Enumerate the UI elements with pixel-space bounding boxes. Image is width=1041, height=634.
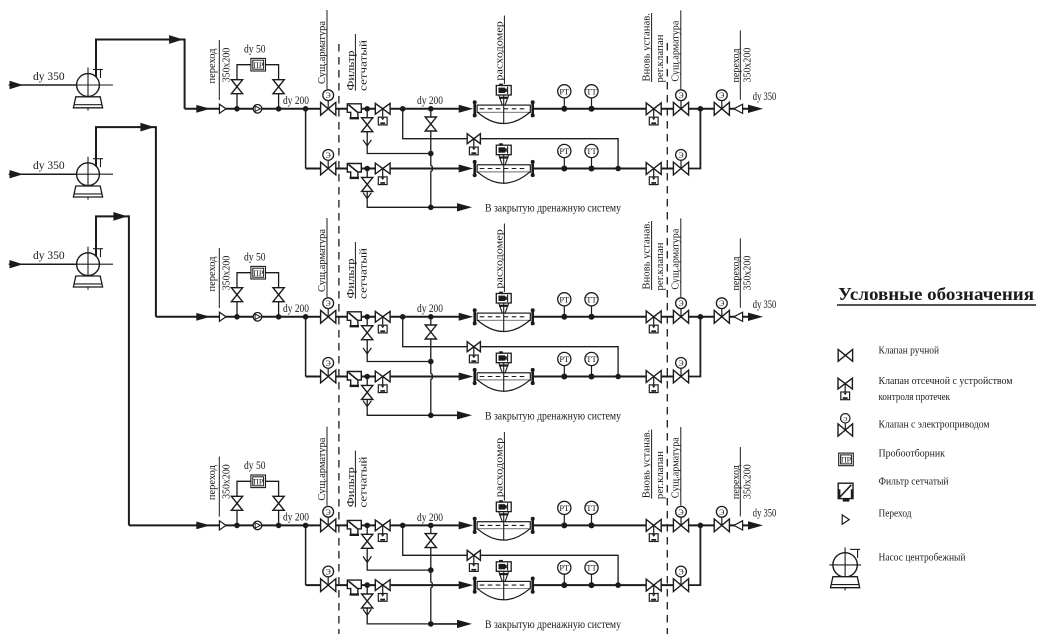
svg-text:dy 200: dy 200 — [417, 95, 443, 107]
shutoff valve w/leak control train 1 line 2 — [375, 163, 390, 184]
control valve train 2 line 1 — [646, 311, 661, 333]
node bypass left train 3 — [234, 523, 240, 529]
wire pump P1 downcomer to header 1 — [184, 39, 186, 109]
drain arrow train 1 line 2 — [363, 193, 371, 199]
label line Вновь устанав. train 2 — [651, 221, 653, 290]
svg-text:dy 350: dy 350 — [33, 71, 65, 83]
instrument TT train 1 line 2 — [585, 144, 598, 171]
svg-text:ПР: ПР — [253, 269, 264, 278]
node filter outlet train 3 line 1 — [364, 523, 370, 529]
node drain1 join train 2 — [428, 359, 434, 365]
pump P3 centrifugal — [73, 247, 113, 290]
motor valve main inlet train 1 — [321, 90, 336, 115]
wire main outlet train 1 — [533, 108, 750, 110]
svg-text:350х200: 350х200 — [220, 464, 232, 499]
drain arrow train 3 line 1 — [363, 556, 371, 562]
svg-text:Э: Э — [678, 91, 683, 100]
svg-text:В закрытую дренажную систему: В закрытую дренажную систему — [485, 411, 621, 423]
svg-text:PT: PT — [559, 354, 570, 364]
svg-text:350х200: 350х200 — [220, 47, 232, 82]
wire subline train 2 — [306, 376, 460, 378]
motor valve main inlet train 3 — [321, 506, 336, 531]
svg-text:сетчатый: сетчатый — [358, 456, 370, 507]
svg-text:Э: Э — [326, 151, 331, 160]
wire main header train 2 dy200 — [156, 316, 460, 318]
node bypass left train 2 — [234, 314, 240, 320]
legend strainer symbol — [838, 483, 853, 500]
reducer 350x200 outlet train 2 — [734, 312, 743, 321]
wire flowmeter bypass train 1 — [403, 109, 618, 169]
node filter outlet train 1 line 1 — [364, 106, 370, 112]
drain valve main train 3 — [425, 534, 436, 541]
wire pump P2 discharge riser — [96, 127, 156, 166]
node drain header join train 3 — [428, 621, 434, 627]
node bypass return train 3 — [615, 582, 621, 588]
node flowmeter bypass takeoff train 1 — [400, 106, 406, 112]
drain arrow train 1 line 1 — [363, 140, 371, 146]
svg-text:350х200: 350х200 — [741, 464, 753, 499]
reducer 350x200 outlet train 3 — [734, 521, 743, 530]
flowmeter train 3 line 2 — [473, 560, 535, 600]
motor valve main inlet train 2 — [321, 298, 336, 323]
svg-text:ПР: ПР — [253, 477, 264, 486]
motor valve subline inlet train 1 — [321, 150, 336, 175]
node drain1 join train 1 — [428, 151, 434, 157]
wire filter drain train 1 line 1 — [367, 109, 431, 154]
svg-text:Фильтр сетчатый: Фильтр сетчатый — [879, 476, 949, 487]
svg-text:TT: TT — [586, 294, 597, 304]
instrument TT train 2 line 1 — [585, 293, 598, 320]
svg-text:dy 200: dy 200 — [417, 303, 443, 315]
wire pump P2 downcomer to header 2 — [155, 126, 157, 317]
flow arrow main header train 1 — [196, 105, 210, 113]
wire subline mid train 2 — [532, 376, 681, 378]
bypass valve w/leak control train 1 — [467, 134, 480, 155]
svg-text:Вновь устанав.: Вновь устанав. — [641, 430, 652, 499]
node flowmeter bypass takeoff train 2 — [400, 314, 406, 320]
check valve train 1 — [253, 105, 262, 114]
instrument TT train 3 line 2 — [585, 561, 598, 588]
svg-text:рег.клапан: рег.клапан — [655, 34, 666, 83]
motor valve final train 3 — [714, 506, 729, 531]
svg-text:Э: Э — [678, 359, 683, 368]
svg-text:TT: TT — [586, 563, 597, 573]
valve sample left train 2 — [231, 288, 242, 295]
svg-text:dy 350: dy 350 — [753, 508, 777, 520]
wire sample bypass dy50 train 2 — [237, 273, 251, 317]
wire sample bypass right leg train 3 — [266, 481, 279, 525]
wire pump P3 suction line dy350 — [9, 263, 77, 265]
svg-text:расходомер: расходомер — [493, 21, 505, 81]
boundary dashed line existing/new equipment (left) — [338, 44, 340, 634]
svg-text:350х200: 350х200 — [220, 255, 232, 290]
svg-text:PT: PT — [559, 86, 570, 96]
control valve train 2 line 2 — [646, 371, 661, 393]
reducer 350x200 inlet train 3 — [219, 521, 226, 530]
legend motor valve symbol — [838, 414, 853, 437]
wire filter drain train 2 line 1 — [367, 317, 431, 362]
motor valve outlet train 3 line 1 — [673, 506, 688, 531]
check valve train 2 — [253, 313, 262, 322]
pump P2 centrifugal — [73, 157, 113, 200]
wire flowmeter bypass train 3 — [403, 525, 618, 585]
node flowmeter bypass takeoff train 3 — [400, 523, 406, 529]
drain valve main train 1 — [425, 117, 436, 124]
node subline drop train 3 — [303, 523, 309, 529]
drain valve main train 2 — [425, 325, 436, 332]
wire subline train 3 — [306, 584, 460, 586]
svg-text:dy 200: dy 200 — [283, 95, 309, 107]
svg-text:Клапан с электроприводом: Клапан с электроприводом — [879, 420, 990, 431]
node filter outlet train 2 line 2 — [364, 374, 370, 380]
wire drain header train 1 — [431, 206, 458, 208]
wire pump P1 suction line dy350 — [9, 84, 77, 86]
strainer filter train 2 line 1 — [347, 312, 361, 326]
flow arrow flowmeter 1 train 1 — [459, 105, 474, 113]
valve sample right train 1 — [273, 80, 284, 87]
node bypass right train 3 — [276, 523, 282, 529]
flow arrow flowmeter 1 train 2 — [459, 313, 474, 321]
svg-text:переход: переход — [206, 48, 218, 83]
svg-text:Э: Э — [843, 416, 848, 423]
pump P1 centrifugal — [73, 68, 113, 111]
svg-text:переход: переход — [206, 256, 218, 291]
motor valve outlet train 1 line 1 — [673, 90, 688, 115]
instrument PT train 1 line 2 — [558, 144, 571, 171]
svg-text:Сущ.арматура: Сущ.арматура — [316, 437, 328, 500]
bypass valve w/leak control train 3 — [467, 550, 480, 571]
valve sample left train 1 — [231, 80, 242, 87]
node filter outlet train 3 line 2 — [364, 582, 370, 588]
svg-text:Э: Э — [719, 299, 724, 308]
node drain takeoff train 1 — [428, 106, 434, 112]
svg-text:dy 200: dy 200 — [417, 512, 443, 524]
wire pump P2 suction line dy350 — [9, 173, 77, 175]
svg-text:350х200: 350х200 — [741, 255, 753, 290]
wire filter drain train 1 line 2 — [367, 169, 431, 208]
flow arrow outlet train 1 — [748, 105, 763, 113]
shutoff valve w/leak control train 2 line 2 — [375, 371, 390, 393]
flowmeter train 2 line 1 — [473, 292, 535, 332]
wire sample bypass right leg train 2 — [266, 273, 279, 317]
strainer filter train 3 line 1 — [347, 520, 361, 534]
svg-text:Э: Э — [678, 508, 683, 517]
svg-text:Э: Э — [326, 359, 331, 368]
svg-text:dy 50: dy 50 — [244, 44, 266, 56]
node subline drop train 2 — [303, 314, 309, 320]
svg-text:dy 350: dy 350 — [33, 160, 65, 172]
valve sample left train 3 — [231, 496, 242, 503]
svg-text:Сущ.арматура: Сущ.арматура — [316, 21, 328, 84]
flowmeter train 2 line 2 — [473, 351, 535, 391]
node bypass left train 1 — [234, 106, 240, 112]
node lines merge train 2 — [698, 314, 704, 320]
svg-text:Сущ.арматура: Сущ.арматура — [670, 228, 682, 289]
svg-text:dy 50: dy 50 — [244, 252, 266, 264]
svg-text:переход: переход — [730, 256, 742, 290]
svg-text:dy 200: dy 200 — [283, 303, 309, 315]
wire main header train 3 dy200 — [129, 524, 460, 526]
label line Сущ.арматура left train 1 — [326, 10, 328, 89]
drain valve filter train 3 line 2 — [362, 594, 373, 601]
shutoff valve w/leak control train 3 line 1 — [375, 520, 390, 542]
svg-text:Сущ.арматура: Сущ.арматура — [670, 437, 682, 498]
drain valve filter train 3 line 1 — [362, 534, 373, 541]
control valve train 3 line 1 — [646, 520, 661, 542]
svg-text:переход: переход — [730, 48, 742, 82]
label line Фильтр train 1 — [354, 34, 356, 91]
flow arrow pump P1 suction — [10, 81, 24, 89]
instrument PT train 1 line 1 — [558, 85, 571, 112]
instrument PT train 3 line 1 — [558, 501, 571, 528]
label line reducer outlet train 2 — [739, 238, 741, 307]
svg-text:Э: Э — [326, 508, 331, 517]
shutoff valve w/leak control train 2 line 1 — [375, 311, 390, 333]
svg-text:PT: PT — [559, 503, 570, 513]
label line reducer inlet train 2 — [218, 248, 220, 308]
flowmeter train 1 line 2 — [473, 143, 535, 183]
node drain header join train 1 — [428, 205, 434, 211]
label line Сущ.арматура left train 3 — [326, 427, 328, 506]
wire main outlet train 3 — [533, 524, 750, 526]
label line reducer outlet train 1 — [739, 30, 741, 99]
svg-text:рег.клапан: рег.клапан — [655, 450, 666, 499]
reducer 350x200 inlet train 1 — [219, 104, 226, 113]
label line Сущ.арматура left train 2 — [326, 218, 328, 297]
drain valve filter train 1 line 2 — [362, 177, 373, 184]
drain arrow train 2 line 1 — [363, 348, 371, 354]
flowmeter train 1 line 1 — [473, 84, 535, 124]
drain valve filter train 2 line 2 — [362, 385, 373, 392]
flow arrow flowmeter 1 train 3 — [459, 521, 474, 529]
drain valve filter train 2 line 1 — [362, 326, 373, 333]
svg-text:Э: Э — [326, 91, 331, 100]
svg-text:Вновь устанав.: Вновь устанав. — [641, 221, 652, 290]
legend pump symbol — [829, 547, 861, 590]
label line Вновь устанав. train 3 — [651, 430, 653, 499]
wire subline drop train 3 — [305, 525, 307, 585]
bypass valve w/leak control train 2 — [467, 342, 480, 363]
svg-text:PT: PT — [559, 294, 570, 304]
svg-text:Э: Э — [678, 299, 683, 308]
legend title underline — [837, 304, 1036, 306]
motor valve final train 2 — [714, 298, 729, 323]
label line расходомер train 1 — [503, 16, 505, 85]
svg-text:переход: переход — [206, 465, 218, 500]
flow arrow drain train 1 — [457, 203, 472, 211]
wire drain header train 2 — [431, 414, 458, 416]
node bypass right train 1 — [276, 106, 282, 112]
wire main drain riser train 2 — [431, 317, 432, 416]
flow arrow main header train 3 — [196, 522, 210, 530]
flow arrow pump P2 discharge — [140, 123, 154, 132]
wire main drain riser train 1 — [431, 109, 432, 208]
svg-text:TT: TT — [586, 503, 597, 513]
svg-text:350х200: 350х200 — [741, 47, 753, 82]
motor valve final train 1 — [714, 90, 729, 115]
svg-text:Э: Э — [719, 508, 724, 517]
node bypass return train 2 — [615, 374, 621, 380]
wire pump P3 discharge riser — [96, 216, 129, 256]
svg-text:dy 200: dy 200 — [283, 512, 309, 524]
svg-text:В закрытую дренажную систему: В закрытую дренажную систему — [485, 619, 621, 631]
instrument TT train 3 line 1 — [585, 501, 598, 528]
check valve train 3 — [253, 521, 262, 530]
flow arrow flowmeter 2 train 1 — [459, 165, 474, 173]
node bypass return train 1 — [615, 166, 621, 172]
boundary dashed line existing/new equipment (right) — [666, 43, 668, 634]
wire subline mid train 3 — [532, 584, 681, 586]
label line расходомер train 3 — [503, 432, 505, 501]
svg-text:Сущ.арматура: Сущ.арматура — [316, 229, 328, 292]
legend manual valve symbol — [838, 350, 845, 362]
strainer filter train 2 line 2 — [347, 372, 361, 386]
svg-text:TT: TT — [586, 86, 597, 96]
wire subline merge riser train 3 — [688, 525, 700, 585]
wire flowmeter bypass train 2 — [403, 317, 618, 377]
instrument TT train 2 line 2 — [585, 352, 598, 379]
wire drain header train 3 — [431, 623, 458, 625]
legend reducer symbol — [842, 515, 849, 524]
sampler PR train 2 — [251, 266, 266, 279]
shutoff valve w/leak control train 1 line 1 — [375, 103, 390, 124]
motor valve outlet train 2 line 1 — [673, 298, 688, 323]
node filter outlet train 2 line 1 — [364, 314, 370, 320]
flow arrow drain train 3 — [457, 620, 472, 628]
svg-text:рег.клапан: рег.клапан — [655, 242, 666, 291]
svg-text:Сущ.арматура: Сущ.арматура — [670, 20, 682, 81]
svg-text:расходомер: расходомер — [493, 229, 505, 289]
label line Вновь устанав. train 1 — [651, 13, 653, 82]
motor valve outlet train 2 line 2 — [673, 358, 688, 383]
label line Фильтр train 3 — [354, 451, 356, 508]
shutoff valve w/leak control train 3 line 2 — [375, 580, 390, 602]
flow arrow pump P1 discharge — [169, 35, 183, 44]
svg-text:dy 350: dy 350 — [753, 91, 777, 103]
svg-text:Э: Э — [678, 151, 683, 160]
flow arrow pump P3 suction — [10, 260, 24, 268]
wire subline merge riser train 2 — [688, 317, 700, 377]
svg-text:контроля протечек: контроля протечек — [879, 392, 951, 403]
wire filter drain train 3 line 1 — [367, 525, 431, 570]
svg-text:ПР: ПР — [253, 61, 264, 70]
sampler PR train 1 — [251, 58, 266, 71]
drain arrow train 3 line 2 — [363, 609, 371, 615]
wire main drain riser train 3 — [431, 525, 432, 624]
drain valve filter train 1 line 1 — [362, 118, 373, 125]
instrument PT train 2 line 1 — [558, 293, 571, 320]
wire subline drop train 2 — [305, 317, 307, 377]
control valve train 1 line 2 — [646, 163, 661, 185]
label line Сущ.арматура right train 2 — [680, 218, 682, 297]
wire subline drop train 1 — [305, 109, 307, 169]
node lines merge train 3 — [698, 523, 704, 529]
svg-text:Пробоотборник: Пробоотборник — [879, 449, 946, 460]
svg-text:PT: PT — [559, 563, 570, 573]
instrument PT train 3 line 2 — [558, 561, 571, 588]
svg-text:dy 350: dy 350 — [753, 299, 777, 311]
legend shutoff valve w/leak control symbol — [838, 378, 852, 400]
svg-text:Переход: Переход — [879, 508, 913, 519]
label line Сущ.арматура right train 3 — [680, 427, 682, 506]
control valve train 1 line 1 — [646, 103, 661, 125]
legend sampler symbol — [839, 453, 854, 466]
wire sample bypass right leg train 1 — [266, 65, 279, 109]
svg-text:dy 50: dy 50 — [244, 460, 266, 472]
flow arrow drain train 2 — [457, 411, 472, 419]
flow arrow pump P3 discharge — [113, 212, 127, 221]
flow arrow pump P2 suction — [10, 170, 24, 178]
svg-text:сетчатый: сетчатый — [358, 248, 370, 299]
flow arrow flowmeter 2 train 3 — [459, 581, 474, 589]
svg-text:Э: Э — [326, 299, 331, 308]
svg-text:переход: переход — [730, 465, 742, 499]
svg-text:Э: Э — [326, 568, 331, 577]
flowmeter train 3 line 1 — [473, 500, 535, 540]
instrument TT train 1 line 1 — [585, 85, 598, 112]
label line reducer outlet train 3 — [739, 447, 741, 516]
flow arrow outlet train 2 — [748, 313, 763, 321]
svg-text:TT: TT — [586, 146, 597, 156]
sampler PR train 3 — [251, 475, 266, 488]
svg-text:Клапан ручной: Клапан ручной — [879, 345, 940, 356]
reducer 350x200 inlet train 2 — [219, 312, 226, 321]
valve sample right train 3 — [273, 496, 284, 503]
reducer 350x200 outlet train 1 — [734, 104, 743, 113]
strainer filter train 1 line 1 — [347, 104, 361, 118]
node drain takeoff train 3 — [428, 523, 434, 529]
node filter outlet train 1 line 2 — [364, 166, 370, 172]
flow arrow main header train 2 — [196, 313, 210, 321]
motor valve outlet train 3 line 2 — [673, 566, 688, 591]
svg-text:dy 350: dy 350 — [33, 250, 65, 262]
strainer filter train 1 line 2 — [347, 164, 361, 178]
svg-text:Э: Э — [719, 91, 724, 100]
svg-text:PT: PT — [559, 146, 570, 156]
label line Фильтр train 2 — [354, 242, 356, 299]
svg-text:расходомер: расходомер — [493, 437, 505, 497]
wire sample bypass dy50 train 3 — [237, 481, 251, 525]
wire subline merge riser train 1 — [688, 109, 700, 169]
wire sample bypass dy50 train 1 — [237, 65, 251, 109]
wire filter drain train 2 line 2 — [367, 377, 431, 416]
wire subline train 1 — [306, 168, 460, 170]
flow arrow flowmeter 2 train 2 — [459, 373, 474, 381]
svg-text:Вновь устанав.: Вновь устанав. — [641, 13, 652, 82]
node subline drop train 1 — [303, 106, 309, 112]
svg-text:сетчатый: сетчатый — [358, 40, 370, 91]
label line Сущ.арматура right train 1 — [680, 10, 682, 89]
node bypass right train 2 — [276, 314, 282, 320]
wire main header train 1 dy200 — [185, 108, 460, 110]
wire pump P3 downcomer to header 3 — [128, 215, 130, 525]
flow arrow outlet train 3 — [748, 521, 763, 529]
valve sample right train 2 — [273, 288, 284, 295]
drain arrow train 2 line 2 — [363, 401, 371, 407]
node drain1 join train 3 — [428, 567, 434, 573]
wire subline mid train 1 — [532, 168, 681, 170]
motor valve subline inlet train 3 — [321, 566, 336, 591]
svg-text:Клапан отсечной с устройством: Клапан отсечной с устройством — [879, 376, 1013, 387]
node lines merge train 1 — [698, 106, 704, 112]
svg-text:Э: Э — [678, 568, 683, 577]
svg-text:ПР: ПР — [841, 456, 852, 465]
motor valve subline inlet train 2 — [321, 358, 336, 383]
svg-text:TT: TT — [586, 354, 597, 364]
wire filter drain train 3 line 2 — [367, 585, 431, 624]
wire pump P1 discharge riser — [96, 40, 185, 78]
svg-text:Насос центробежный: Насос центробежный — [879, 553, 966, 564]
